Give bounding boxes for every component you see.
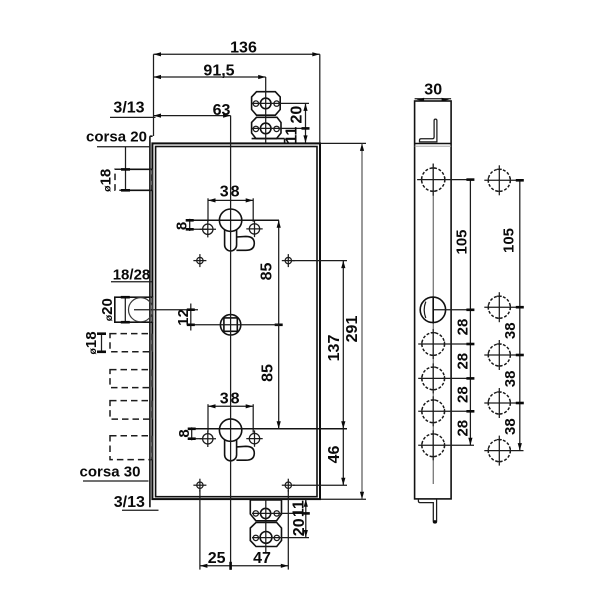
dimension 38 bottom (208, 391, 253, 433)
svg-text:11: 11 (290, 500, 307, 517)
bottom bracket hole extension lines (252, 512, 309, 514)
svg-text:291: 291 (344, 316, 361, 343)
bottom bracket plate 1 (250, 500, 281, 521)
dimension dia18 top (98, 147, 131, 192)
dimension 137 (292, 261, 347, 429)
svg-text:20: 20 (288, 106, 305, 124)
svg-text:46: 46 (326, 446, 343, 464)
svg-text:20: 20 (291, 518, 308, 536)
svg-text:3/13: 3/13 (113, 100, 144, 117)
label 3/13 bottom (114, 494, 159, 511)
dimension 291 (321, 143, 366, 499)
dimension 38 top (208, 184, 253, 222)
svg-text:85: 85 (260, 364, 277, 382)
dimension 25 / 47 bottom (200, 490, 288, 570)
strip hole 1 (417, 164, 474, 196)
dimension 63 (154, 102, 231, 119)
case corner screw holes (193, 254, 294, 492)
svg-text:30: 30 (424, 82, 442, 99)
svg-text:corsa 30: corsa 30 (80, 464, 141, 481)
dimension 46 (293, 429, 347, 485)
strip latch hole (420, 297, 474, 324)
svg-text:47: 47 (253, 550, 271, 567)
latch bolt with round head (115, 297, 153, 322)
svg-text:corsa 20: corsa 20 (86, 128, 147, 145)
svg-text:28: 28 (454, 420, 471, 437)
svg-text:137: 137 (326, 335, 343, 362)
top mounting bracket plate 1 (252, 92, 281, 116)
svg-text:38: 38 (502, 322, 519, 339)
faceplate edge-on line (150, 136, 153, 507)
label 18/28 (111, 266, 152, 283)
svg-text:28: 28 (454, 386, 471, 403)
keyhole2 screw holes (200, 430, 263, 447)
svg-text:38: 38 (502, 371, 519, 388)
strip bottom hook tab (418, 499, 436, 524)
svg-text:28: 28 (454, 353, 471, 370)
dimension 8 bottom (176, 427, 347, 440)
strip1 weld line gray (415, 145, 452, 147)
svg-text:85: 85 (259, 263, 276, 281)
svg-text:18/28: 18/28 (113, 266, 151, 283)
svg-text:28: 28 (454, 319, 471, 336)
label 3/13 top (110, 100, 156, 118)
svg-text:8: 8 (176, 429, 193, 437)
label corsa 20 (86, 128, 150, 147)
deadbolt top (dashed, thrown) (115, 169, 152, 190)
strip top hook tab (415, 119, 452, 143)
bottom bracket plate 2 (250, 523, 281, 547)
svg-text:25: 25 (208, 550, 226, 567)
bottom bracket centerline (265, 499, 267, 552)
svg-text:105: 105 (501, 228, 518, 253)
dimension 30 (415, 82, 452, 102)
faceplate bolt slots (150, 169, 153, 459)
dimension 105 strip1 + 28 chain (454, 180, 475, 446)
strip outline (415, 101, 452, 499)
svg-text:105: 105 (454, 229, 471, 254)
euro cylinder keyhole 1 (219, 209, 254, 251)
svg-text:12: 12 (175, 309, 192, 326)
main vertical centerline (230, 116, 232, 570)
svg-text:11: 11 (284, 127, 301, 144)
dimension 105 + 38 chain right (501, 180, 524, 450)
follower square spindle hub (220, 315, 240, 335)
dimension dia18 lower (83, 331, 106, 354)
RIGHT DRILL PATTERN COLUMN (484, 165, 523, 195)
dimension 11/20 bottom bracket (290, 499, 310, 537)
dimension 91,5 (154, 63, 266, 80)
dimension 85 upper (259, 220, 283, 324)
svg-text:38: 38 (502, 418, 519, 435)
dimension 85 lower (260, 325, 281, 429)
dimension 20/11 top bracket (284, 103, 310, 143)
label corsa 30 (80, 464, 149, 482)
dimension dia20 latch (99, 297, 130, 322)
svg-text:63: 63 (213, 102, 231, 119)
top mounting bracket plate 2 (252, 117, 285, 143)
keyhole1 screw holes (200, 221, 263, 238)
dimension 12 (134, 304, 279, 331)
strip holes 2-5 (418, 329, 474, 359)
svg-text:38: 38 (220, 184, 242, 201)
svg-text:91,5: 91,5 (203, 63, 234, 80)
svg-text:8: 8 (174, 222, 191, 230)
lower dashed bolts (110, 334, 152, 460)
dimension 136 (154, 40, 320, 144)
svg-text:136: 136 (230, 40, 257, 57)
euro cylinder keyhole 2 (219, 419, 254, 461)
dimension 8 top (174, 219, 280, 231)
svg-text:3/13: 3/13 (114, 494, 145, 511)
top bracket hole extension lines (252, 102, 309, 104)
top bracket centerline (265, 77, 267, 143)
strip centerline (432, 164, 434, 484)
lock case outer outline (152, 143, 320, 499)
svg-text:38: 38 (220, 391, 242, 408)
